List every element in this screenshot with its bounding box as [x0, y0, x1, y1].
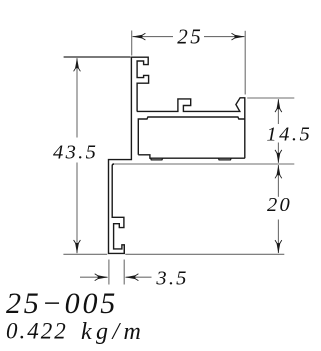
- svg-text:14.5: 14.5: [266, 124, 312, 146]
- svg-text:0.422: 0.422: [6, 319, 68, 344]
- svg-text:25: 25: [177, 25, 203, 49]
- svg-text:kg/m: kg/m: [81, 319, 145, 345]
- svg-text:3.5: 3.5: [155, 268, 188, 290]
- svg-text:20: 20: [267, 194, 292, 216]
- svg-text:43.5: 43.5: [53, 141, 98, 163]
- svg-text:25−005: 25−005: [6, 287, 118, 320]
